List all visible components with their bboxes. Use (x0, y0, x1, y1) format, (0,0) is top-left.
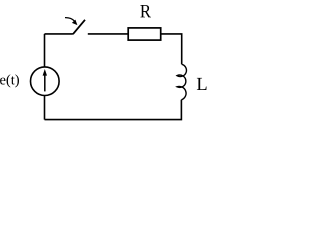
wire: coil bottom to bottom-right corner, then bottom wire to bottom-left corner (45, 100, 182, 120)
label L (197, 78, 207, 90)
label R (140, 5, 151, 17)
wire: switch right contact to resistor left lead (88, 33, 128, 35)
switch actuation arrow: curved tail (65, 18, 74, 21)
resistor R body (128, 28, 161, 40)
wire: bottom-left corner up to source circle bottom (44, 96, 46, 120)
source arrow head (43, 69, 47, 76)
switch blade (open) (73, 20, 85, 34)
switch actuation arrow: filled head (72, 20, 78, 26)
source arrow shaft (points up) (44, 73, 46, 92)
source e(t) circle (31, 67, 60, 96)
label e(t) (0, 74, 19, 87)
inductor L coil (3 loops) (177, 64, 186, 100)
wire: source circle top up to top-left corner (44, 34, 46, 67)
wire: resistor right lead to top-right corner and down to coil top (161, 34, 182, 64)
wire: top-left corner to switch left contact (45, 33, 73, 35)
